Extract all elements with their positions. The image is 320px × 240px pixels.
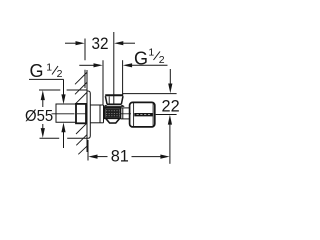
valve body stub <box>90 105 103 123</box>
left G1/2 up arrow <box>61 123 65 149</box>
dim 81 left extension line <box>87 140 89 161</box>
label G1/2 left <box>30 61 63 81</box>
dim 22 bottom extension line <box>156 114 177 116</box>
inlet tail pipe <box>56 104 76 122</box>
handle stem <box>121 108 130 119</box>
dia55 bottom extension line <box>40 137 88 139</box>
left G1/2 label underline <box>29 78 64 80</box>
wall section line <box>86 70 88 152</box>
svg-text:G: G <box>30 61 44 81</box>
dim 32 left arrow <box>65 41 85 45</box>
dim 32 left extension line <box>84 39 86 89</box>
dia55 top extension line <box>39 89 87 91</box>
dim 22 up arrow / dim 81 right extension line <box>168 115 172 164</box>
inlet union nut (bold) <box>76 104 86 123</box>
dia55 down arrow <box>41 124 45 138</box>
svg-text:2: 2 <box>159 54 165 66</box>
svg-text:1: 1 <box>46 61 52 73</box>
dia55 up arrow <box>41 90 45 107</box>
dim 32 right extension line / outlet centerline <box>113 32 115 104</box>
svg-text:22: 22 <box>162 96 180 115</box>
handle slot (bold) <box>134 113 153 116</box>
outlet thread left extension line <box>102 60 104 105</box>
handle outline <box>130 102 155 127</box>
knurled body block (bold) <box>105 108 121 119</box>
fraction slash right G1/2 <box>154 52 161 61</box>
svg-text:1: 1 <box>148 47 154 59</box>
right G1/2 right arrow and underline <box>123 63 168 67</box>
left G1/2 leader down arrow <box>61 79 65 104</box>
axis centerline <box>52 113 87 115</box>
dim 22 down arrow <box>168 69 172 93</box>
wall hatching <box>75 73 87 155</box>
svg-text:Ø55: Ø55 <box>25 108 53 126</box>
svg-text:81: 81 <box>111 146 129 165</box>
fraction slash left G1/2 <box>52 66 58 75</box>
right G1/2 left arrow <box>79 63 102 67</box>
escutcheon flange (side view) <box>87 91 90 138</box>
handle face lines <box>134 103 154 127</box>
centerline through stem <box>121 113 132 115</box>
svg-text:G: G <box>134 49 148 69</box>
outlet compression nut (bold) <box>105 95 123 104</box>
body bottom taper <box>106 119 120 124</box>
nut skirt <box>104 105 124 107</box>
dim 81 left arrow <box>88 155 107 159</box>
svg-text:2: 2 <box>57 68 63 80</box>
nut interior line <box>108 96 110 103</box>
dim 22 top extension line <box>123 93 177 95</box>
outlet thread right extension line <box>122 60 124 95</box>
label G1/2 right <box>134 47 165 69</box>
dim 32 right arrow <box>114 41 135 45</box>
svg-text:32: 32 <box>91 34 108 53</box>
dim 81 right arrow <box>132 155 170 159</box>
